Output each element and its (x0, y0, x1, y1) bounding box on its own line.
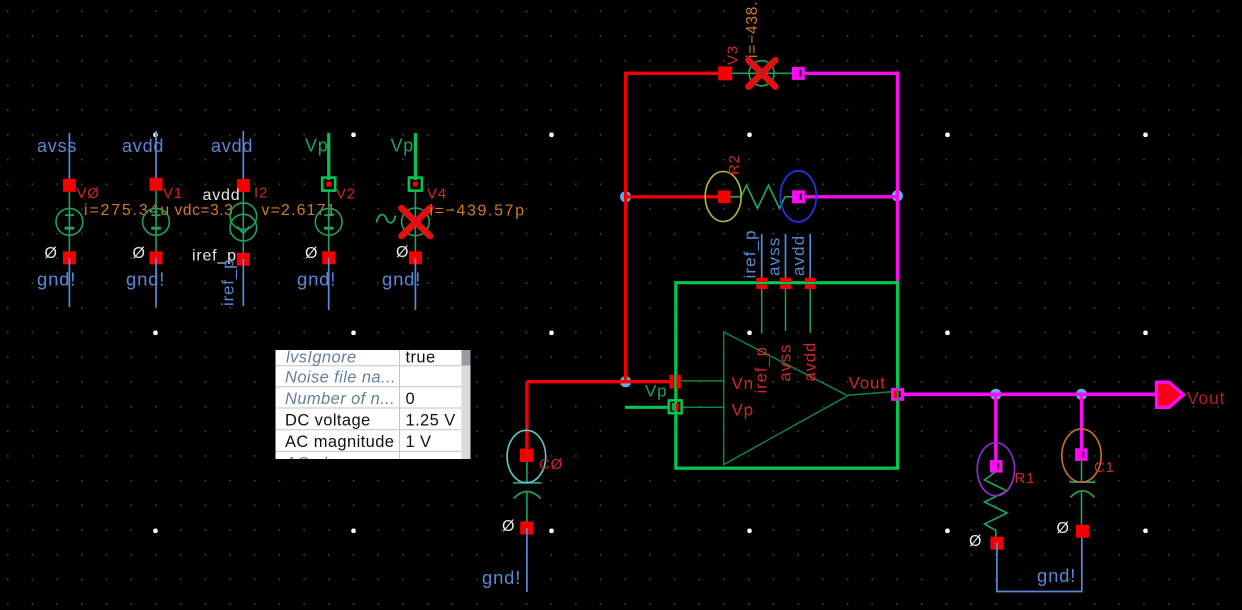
pin I2 top (237, 179, 250, 192)
voltage source V4 body (402, 190, 430, 253)
svg-text:0: 0 (406, 390, 416, 408)
svg-text:i=−438.2: i=−438.2 (744, 0, 761, 58)
highlight ellipse R1 (977, 443, 1014, 496)
svg-text:gnd!: gnd! (482, 567, 521, 588)
svg-text:true: true (406, 349, 436, 367)
wire magenta down to C1 (1080, 394, 1083, 449)
stub iref_p inside (761, 286, 763, 334)
wire net avdd (V1 top) (155, 131, 157, 186)
wire magenta down to R1 (994, 394, 997, 461)
svg-text:gnd!: gnd! (382, 269, 421, 290)
wire magenta output (Vout) (897, 392, 1157, 396)
svg-text:lvsIgnore: lvsIgnore (286, 349, 357, 367)
pin V3 right (792, 67, 805, 80)
pin C1 top (1075, 448, 1088, 461)
svg-text:CØ: CØ (539, 456, 563, 473)
svg-text:gnd!: gnd! (1037, 565, 1076, 586)
svg-text:Number of n...: Number of n... (285, 390, 395, 408)
highlight ellipse C0 (507, 430, 546, 482)
svg-text:1 V: 1 V (406, 433, 432, 451)
svg-text:avdd: avdd (789, 235, 808, 276)
parameter table overlay (276, 349, 471, 473)
svg-text:Ø: Ø (1057, 520, 1070, 537)
wire stub iref_p (above box) (761, 234, 763, 283)
pin C0 bottom (520, 522, 533, 535)
svg-text:C1: C1 (1094, 459, 1115, 476)
svg-text:Vout: Vout (849, 374, 886, 393)
svg-text:Vout: Vout (1187, 388, 1225, 408)
wire net gnd! (R1 leg) (997, 537, 1082, 592)
wire green net Vp (to op-amp) (625, 406, 668, 409)
wire red left vertical (624, 72, 627, 382)
svg-text:Vp: Vp (305, 136, 329, 156)
op-amp instance boundary (676, 283, 898, 469)
svg-text:gnd!: gnd! (297, 269, 336, 290)
svg-text:V4: V4 (427, 186, 447, 203)
svg-text:iref_p: iref_p (219, 259, 238, 306)
svg-text:Ø: Ø (502, 518, 515, 535)
pin R2 right (792, 190, 805, 203)
highlight ellipse R2 left (705, 172, 741, 222)
pin V4 plus (connected) (409, 178, 422, 191)
wire net gnd! (V4 bottom) (414, 258, 416, 310)
pin V2 minus (322, 251, 335, 264)
junction node at magenta tee (R2 right) (892, 190, 903, 201)
svg-text:i=−439.57p: i=−439.57p (430, 203, 526, 220)
wire magenta right vertical (896, 72, 899, 284)
voltage source V0 (56, 191, 83, 253)
voltage source V2 (315, 191, 342, 253)
svg-text:avdd: avdd (122, 136, 164, 156)
svg-text:Ø: Ø (396, 244, 409, 261)
svg-text:Ø: Ø (45, 245, 58, 262)
junction node at C1 tap (1076, 389, 1087, 400)
wire net avss (V0 top) (68, 133, 70, 186)
pin V0 minus (63, 251, 76, 264)
junction node at R1 tap (990, 389, 1001, 400)
svg-text:i=275.34u: i=275.34u (84, 202, 171, 219)
wire net iref_p (I2 bottom) (242, 259, 244, 306)
wire net Vp (V2 top) (327, 133, 330, 180)
wire red top (to V3) (624, 72, 719, 75)
svg-text:gnd!: gnd! (126, 269, 165, 290)
current source I2 (230, 186, 257, 259)
svg-text:1.25 V: 1.25 V (406, 412, 456, 430)
svg-text:V2: V2 (336, 186, 356, 203)
svg-text:Vp: Vp (645, 382, 667, 401)
pin iref_p (box top) (756, 278, 767, 289)
svg-text:DC voltage: DC voltage (285, 412, 371, 430)
wire stub avdd (above box) (809, 234, 811, 283)
wire magenta R2 right (805, 195, 897, 198)
stub Vn inside (681, 380, 724, 382)
pin C0 top (520, 449, 534, 463)
pin I2 bottom (237, 253, 250, 266)
pin Vout (box right) (891, 388, 904, 401)
pin V1 plus (150, 178, 163, 191)
cross-out X V3 (748, 60, 775, 86)
pin avss (box top) (780, 278, 791, 289)
pin avdd (box top) (805, 278, 816, 289)
svg-text:R1: R1 (1015, 470, 1036, 487)
svg-text:avss: avss (777, 344, 795, 382)
svg-text:Vp: Vp (391, 136, 415, 156)
svg-text:V3: V3 (725, 45, 742, 65)
resistor R1 (985, 472, 1007, 538)
svg-text:Ø: Ø (305, 245, 318, 262)
pin V3 left (718, 66, 732, 80)
voltage source V1 (143, 191, 170, 253)
pin V4 minus (409, 251, 422, 264)
svg-text:iref_p: iref_p (741, 229, 760, 278)
stub Vout inside (848, 392, 892, 395)
svg-text:v=2.6171: v=2.6171 (262, 202, 337, 219)
wire net gnd! (V1 bottom) (155, 258, 157, 307)
svg-text:avss: avss (37, 136, 77, 156)
wire net Vp (V4 top) (414, 133, 417, 180)
pin V1 minus (150, 251, 163, 264)
svg-text:Noise file na...: Noise file na... (285, 369, 396, 387)
pin R1 top (990, 460, 1003, 473)
pin Vn (box left) (669, 375, 680, 389)
current source V3 body (731, 61, 792, 86)
svg-text:R2: R2 (726, 154, 743, 175)
junction node at Vn tee (620, 376, 631, 387)
junction node at red tee (R2 left) (620, 191, 631, 202)
wire magenta top (V3 to corner) (804, 72, 899, 75)
svg-text:V1: V1 (163, 185, 183, 202)
stub avss inside (785, 286, 787, 331)
highlight ellipse R2 right (780, 171, 816, 222)
wire stub avss (above box) (785, 234, 787, 283)
highlight ellipse C1 (1062, 429, 1101, 482)
svg-text:Vn: Vn (732, 374, 754, 393)
pin R1 bottom (990, 537, 1003, 550)
svg-text:vdc=3.3: vdc=3.3 (175, 202, 234, 219)
svg-text:I2: I2 (254, 185, 268, 202)
svg-text:gnd!: gnd! (37, 269, 76, 290)
resistor R2 (730, 185, 793, 208)
svg-text:VØ: VØ (77, 185, 100, 202)
svg-text:Ø: Ø (133, 245, 146, 262)
stub Vp inside (681, 406, 724, 408)
output pin Vout symbol (1157, 382, 1184, 407)
svg-text:avdd: avdd (203, 187, 241, 204)
pin C1 bottom (1076, 525, 1089, 538)
stub avdd inside (809, 286, 811, 333)
wire net gnd! (C0) (526, 528, 528, 592)
pin V0 plus (63, 179, 76, 192)
capacitor C1 (1070, 460, 1096, 526)
wire net gnd! (V2 bottom) (328, 258, 330, 310)
wire net avdd (I2 top) (242, 131, 244, 186)
op-amp triangle (724, 332, 848, 465)
capacitor C0 (513, 461, 542, 522)
svg-text:avdd: avdd (211, 136, 253, 156)
wire red down to C0 (525, 382, 528, 450)
svg-text:Vp: Vp (732, 401, 754, 420)
svg-text:avss: avss (765, 237, 784, 276)
pin R2 left (718, 191, 731, 204)
svg-text:avdd: avdd (802, 342, 820, 382)
wire red to R2 (626, 195, 719, 198)
wire red horizontal to Vn (527, 380, 671, 383)
pin V2 plus (connected) (322, 178, 335, 191)
cross-out X V4 (402, 208, 431, 236)
sine mark V4 (377, 215, 396, 223)
svg-text:AC magnitude: AC magnitude (285, 433, 394, 451)
svg-text:iref_p: iref_p (753, 346, 771, 393)
wire net gnd! (V0 bottom) (68, 258, 70, 307)
pin Vp (box left, connected) (669, 400, 682, 413)
svg-text:Ø: Ø (969, 533, 982, 550)
